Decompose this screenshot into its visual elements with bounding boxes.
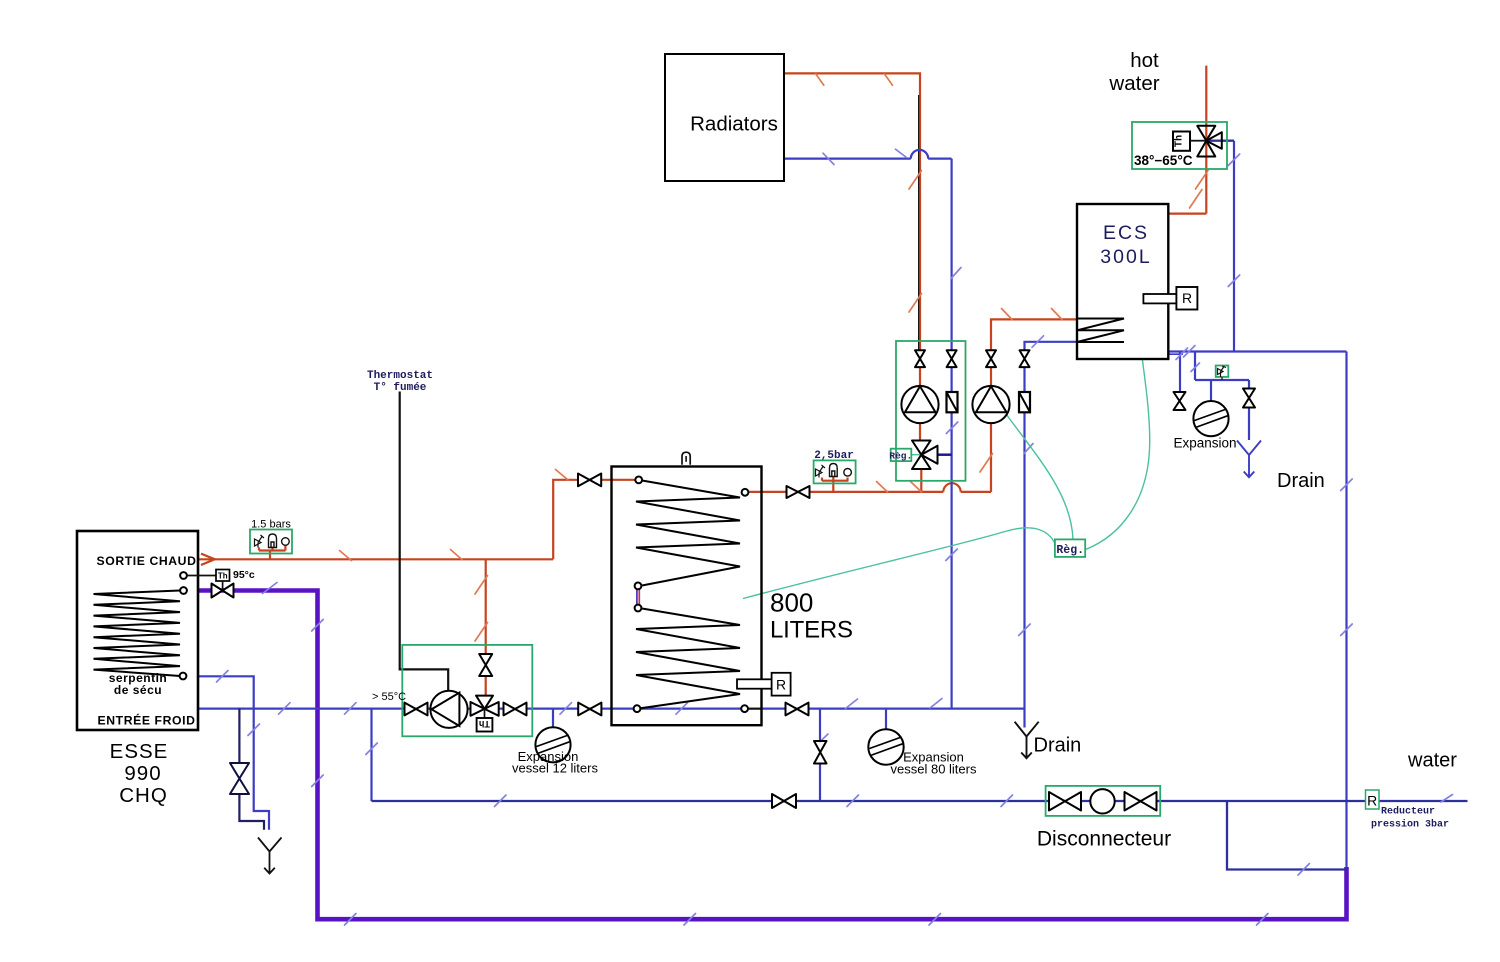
wire: red from 800L top-right port to heating/ECS distribution <box>748 491 943 493</box>
valve after 800L tank bottom-right port <box>786 703 809 716</box>
wire: blue expansion 12l stub <box>552 709 554 728</box>
mixing valve Th actuator box <box>1173 132 1190 151</box>
800L thermowell sleeve and R sensor <box>737 679 772 688</box>
3-way mixing valve at boiler with Th actuator <box>471 696 499 716</box>
wire: red mixing valve down to ECS tank top <box>1169 213 1207 215</box>
svg-text:2,5bar: 2,5bar <box>814 450 854 462</box>
svg-text:R: R <box>1367 793 1377 809</box>
boiler port SORTIE (thick purple) <box>180 587 187 594</box>
1.5 bars gauge icon <box>282 538 290 546</box>
svg-text:SORTIE CHAUD: SORTIE CHAUD <box>97 554 197 568</box>
wire: blue capped stub with valve under ECS line <box>1179 352 1181 393</box>
800L lower coil <box>636 609 740 709</box>
teal control curve: Reg2 to 800L tank sensor <box>743 528 1056 599</box>
teal control curve: Reg2 to ECS tank <box>1086 353 1150 550</box>
valve on red line after 800L top-right port <box>787 486 810 498</box>
svg-text:800: 800 <box>770 588 813 618</box>
ECS thermowell and R sensor <box>1143 294 1177 303</box>
valve on branch x=820 <box>814 741 827 764</box>
wire: red hot water riser above mixing valve <box>1205 66 1207 214</box>
svg-text:Règ.: Règ. <box>889 451 912 462</box>
svg-text:vessel 80 liters: vessel 80 liters <box>891 762 977 777</box>
thermostatic 3-way mixing valve <box>1197 126 1222 157</box>
expansion vessel 12 liters <box>535 727 570 762</box>
svg-text:pression 3bar: pression 3bar <box>1371 819 1449 831</box>
wire: blue riser through pump group down to main return line <box>950 367 952 709</box>
valve on main return before 800L tank <box>578 703 601 716</box>
wire: blue to right drain <box>1248 380 1250 440</box>
svg-text:Thermostat: Thermostat <box>367 370 433 382</box>
valve V1 on boiler purple outlet <box>212 584 234 598</box>
boiler circulation pump <box>430 691 467 728</box>
wire: red riser up to 800L tank top feed <box>553 480 634 560</box>
svg-text:Drain: Drain <box>1034 735 1082 757</box>
wire: blue branch with valve down to water line at x=820 <box>819 709 821 801</box>
wire: red stem of 2,5bar safety group <box>822 477 849 492</box>
svg-text:de sécu: de sécu <box>114 683 162 697</box>
teal link: Reg1 to 3-way valve <box>911 454 921 456</box>
svg-text:Expansion: Expansion <box>1173 436 1236 451</box>
svg-text:hot: hot <box>1130 49 1159 72</box>
wire: red pump1 to 3-way mixing valve <box>919 423 921 441</box>
pressure reducer R green box <box>1366 790 1380 809</box>
wire: blue right riser down to bottom corner <box>1345 352 1347 868</box>
2,5bar safety group green box <box>814 460 856 483</box>
wire: red branch down to boiler pump group <box>485 559 487 654</box>
2,5bar safety valve icon <box>816 465 826 478</box>
boiler pump group green box <box>402 645 532 736</box>
valve right in boiler pump group <box>504 703 527 716</box>
svg-text:R: R <box>776 677 786 693</box>
valve on lower water line <box>772 794 796 808</box>
wire: blue main return line from boiler to drain end <box>198 707 1025 709</box>
svg-text:ENTRÉE FROID: ENTRÉE FROID <box>98 713 196 728</box>
wire: red 3-way valve down to distribution line <box>920 469 922 492</box>
wire: red and purple link between 800L middle ports <box>638 590 640 605</box>
wire: blue hop over red radiator riser <box>911 150 928 159</box>
wire: red stem of 1.5 bars safety group <box>259 546 286 560</box>
svg-text:Th: Th <box>1174 135 1185 147</box>
wire: blue serpentin de secu outlet to drain <box>187 676 269 829</box>
svg-text:R: R <box>1182 290 1192 306</box>
svg-text:Disconnecteur: Disconnecteur <box>1037 828 1171 851</box>
svg-text:ESSE: ESSE <box>110 740 169 763</box>
ECS pump group: valve above pump1 <box>896 341 966 481</box>
valve on boiler drain branch <box>230 763 249 794</box>
valve above ECS pump <box>986 350 996 367</box>
ECS heat exchanger coil <box>1077 319 1124 343</box>
boiler coil <box>94 591 181 677</box>
svg-text:T° fumée: T° fumée <box>374 382 427 394</box>
wire: black thermostat capillary to pump <box>400 392 449 691</box>
wire: blue expansion 80l stub <box>885 709 887 730</box>
wire: blue ECS tank bottom coil to ECS return riser <box>1025 342 1078 351</box>
2,5bar vessel icon <box>830 464 838 477</box>
arrow on SORTIE CHAUD pipe <box>201 554 215 565</box>
1.5 bars safety valve icon <box>255 535 265 548</box>
3-way mixing valve heating circuit <box>912 441 938 470</box>
valve above blue riser in pump group <box>947 350 957 367</box>
disconnecteur green box <box>1046 786 1161 816</box>
tick marks on pipes <box>217 74 1453 925</box>
disconnecteur outlet valve <box>1125 792 1157 811</box>
wire: blue ECS return riser down to main line and drain <box>1023 367 1025 728</box>
svg-text:LITERS: LITERS <box>770 617 853 644</box>
svg-text:990: 990 <box>124 762 161 785</box>
svg-text:CHQ: CHQ <box>119 784 168 807</box>
boiler ESSE 990 CHQ box <box>77 531 198 730</box>
disconnecteur relief chamber <box>1090 789 1114 813</box>
svg-text:Radiators: Radiators <box>690 113 778 136</box>
valve on red branch to boiler pump group <box>479 654 492 676</box>
valve above ECS return riser <box>1020 350 1030 367</box>
800 LITERS tank box <box>612 467 762 726</box>
svg-text:Reducteur: Reducteur <box>1381 806 1435 818</box>
wire: red ECS pump up to ECS coil <box>991 319 1077 351</box>
svg-text:300L: 300L <box>1100 246 1151 268</box>
svg-text:1.5 bars: 1.5 bars <box>251 519 291 531</box>
wire: red radiators supply from box to riser and down to pump 1 <box>784 73 920 351</box>
1.5 bars safety group green box <box>250 530 292 554</box>
svg-text:Th: Th <box>218 571 228 580</box>
thermostatic mixing valve green box 38-65C <box>1132 122 1227 169</box>
wire: navy stub 3-way valve to blue riser <box>938 453 952 456</box>
mini safety valve green box on branch <box>1216 366 1229 377</box>
valve before right drain <box>1243 389 1255 408</box>
wire: navy lower water line from branch to right edge <box>372 800 1468 802</box>
wire: red hop over blue riser <box>943 483 960 492</box>
wire: navy down-step from water line to bottom corner <box>1227 801 1347 870</box>
wire: black stub 800L bottom-right port to wall <box>748 708 762 710</box>
wire: red to ECS pump bottom <box>961 423 991 492</box>
svg-text:water: water <box>1407 750 1457 772</box>
wire: blue radiators return to riser <box>784 158 911 160</box>
svg-text:Th: Th <box>479 719 490 729</box>
balancing valve on ECS return riser <box>1019 392 1030 412</box>
thermometer 95°c line and Th box <box>187 575 216 577</box>
wire: red between pump1 valve and pump1 <box>919 367 921 387</box>
svg-text:Drain: Drain <box>1277 470 1325 492</box>
wire: red between branch valve and 3-way valve <box>485 676 487 696</box>
1.5 bars vessel icon <box>269 534 277 548</box>
middle drain funnel <box>1015 722 1039 759</box>
right drain funnel <box>1237 441 1261 478</box>
wire: red between ECS pump valve and pump2 <box>990 367 992 387</box>
svg-text:Règ.: Règ. <box>1056 544 1084 557</box>
wire: blue branch down to lower water line <box>370 709 372 801</box>
wire: thick purple cold-feed main from boiler valve, down left side, along bottom, up right <box>187 591 1347 920</box>
800L upper coil <box>636 481 740 586</box>
svg-text:ECS: ECS <box>1103 222 1149 244</box>
wire: blue mixing valve cold inlet riser <box>1206 140 1234 142</box>
svg-text:38°−65°C: 38°−65°C <box>1134 153 1193 168</box>
wire: blue safety group branch under ECS line <box>1195 352 1249 381</box>
wire: dark boiler drain branch with valve <box>238 709 240 763</box>
balancing valve on blue riser <box>947 392 958 412</box>
svg-text:> 55°C: > 55°C <box>372 691 406 703</box>
wire: blue expansion vessel stub (right) <box>1210 380 1212 402</box>
teal control curve: ECS pump to Reg2 <box>1006 414 1073 539</box>
Reg2 label box <box>1055 539 1085 557</box>
pump 1 (heating circuit) <box>901 386 938 423</box>
ECS 300L tank box <box>1077 204 1168 359</box>
valve on red line to 800L tank <box>578 474 601 487</box>
Radiators box <box>665 54 784 181</box>
800L ports <box>635 477 642 484</box>
disconnecteur inlet valve <box>1049 792 1081 811</box>
Reg1 label box <box>891 449 912 461</box>
wire: blue radiators return riser down to pump group <box>928 159 951 351</box>
boiler drain funnel <box>258 838 282 874</box>
svg-text:vessel 12 liters: vessel 12 liters <box>512 761 598 776</box>
boiler port serpentin <box>180 673 187 680</box>
boiler port top (to thermometer) <box>180 572 187 579</box>
capped valve under ECS line <box>1174 392 1186 410</box>
valve left in boiler pump group <box>405 703 428 716</box>
expansion vessel 80 liters <box>868 729 903 764</box>
pump 2 (ECS charge pump) <box>972 386 1009 423</box>
expansion vessel (right) <box>1193 401 1228 436</box>
svg-text:95°c: 95°c <box>233 569 255 581</box>
2,5bar gauge icon <box>844 469 852 477</box>
wire: blue ECS cold feed line along tank bottom to right riser <box>1169 350 1347 352</box>
wire: red boiler hot out (SORTIE CHAUD) to riser <box>198 558 553 560</box>
sensor bulb on 800L tank top <box>682 452 690 465</box>
svg-text:water: water <box>1108 72 1159 95</box>
